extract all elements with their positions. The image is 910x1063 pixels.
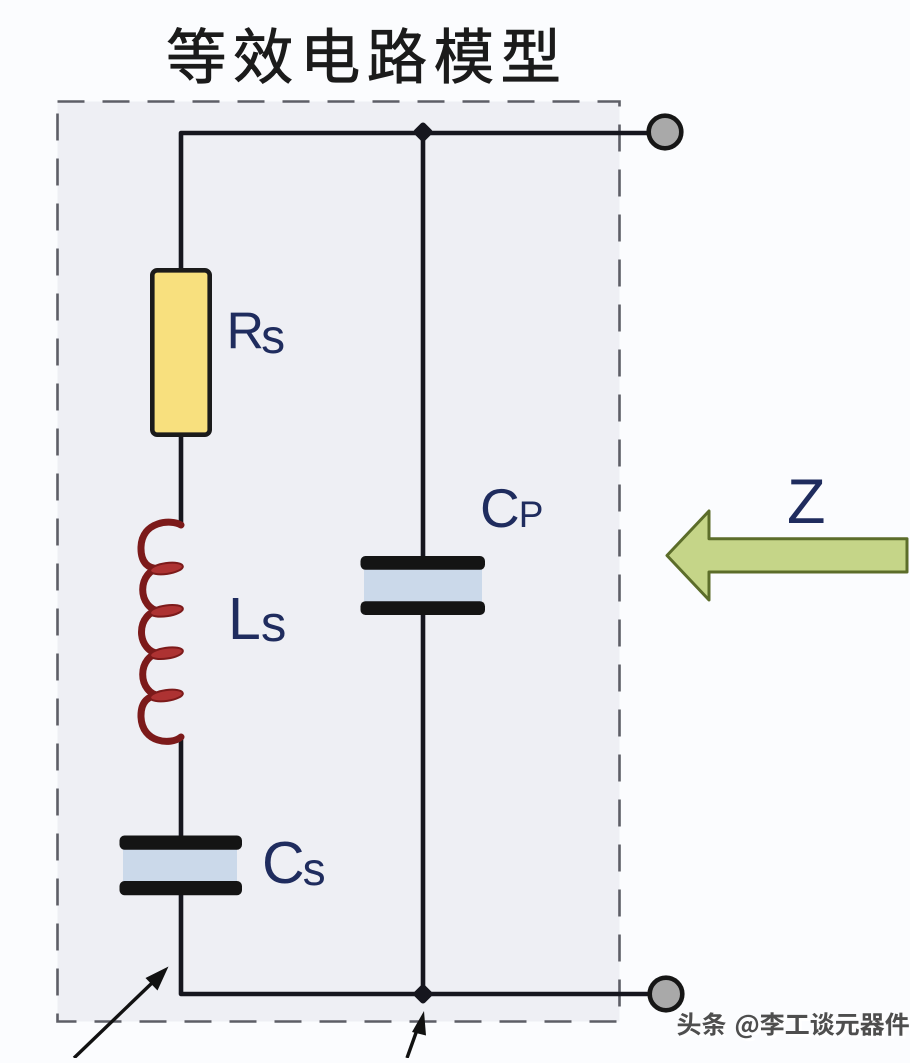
wire: Ls to Cs segment (179, 736, 184, 838)
annotation arrow to bottom junction (407, 1011, 426, 1058)
wire: bottom rail from Cs branch to bottom terminal (181, 893, 649, 994)
capacitor Cp (361, 556, 486, 615)
svg-text:Rs: Rs (227, 303, 286, 365)
title 等效电路模型 (168, 27, 558, 83)
wire: top rail from Rs branch to top terminal (181, 133, 648, 270)
annotation arrow to series branch (74, 967, 169, 1059)
svg-text:Z: Z (787, 467, 825, 537)
inductor Ls (coil) (141, 522, 184, 741)
green arrow Z (impedance looking into port) (667, 511, 907, 600)
wire: Cp branch lower segment (421, 613, 426, 994)
resistor Rs (152, 270, 209, 434)
node: bottom junction (417, 988, 430, 1001)
capacitor Cs (120, 836, 243, 896)
dashed model boundary box (58, 102, 620, 1022)
wire: Cp branch upper segment (421, 133, 426, 558)
node: top junction (417, 126, 430, 139)
wire: Rs to Ls segment (179, 435, 184, 525)
terminal: bottom-right port (650, 978, 683, 1011)
svg-text:Ls: Ls (228, 586, 286, 652)
watermark 头条@李工谈元器件 (677, 1012, 910, 1041)
terminal: top-right port (649, 116, 682, 149)
